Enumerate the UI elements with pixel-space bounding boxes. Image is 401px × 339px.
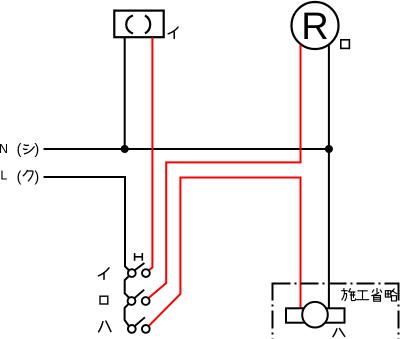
svg-text:N: N xyxy=(0,142,8,156)
label 施 (kanji) xyxy=(342,288,356,300)
label ハ (switch S3) xyxy=(99,321,111,332)
label N (シ) xyxy=(0,142,39,158)
label イ (switch S1) xyxy=(98,268,109,279)
svg-text:(: ( xyxy=(17,169,22,185)
label 工 (kanji) xyxy=(357,291,369,300)
wire: switch chain S1-S2 xyxy=(125,276,129,297)
wire: relay neutral (black) down to receptacle xyxy=(328,45,330,308)
wire: lamp switched leg (red) to switch イ xyxy=(149,37,153,270)
label イ (lamp) xyxy=(168,27,178,38)
switch S3 (ハ) xyxy=(128,317,150,333)
lamp fixture box U1 (イ) xyxy=(114,11,163,38)
junction node A (N line / lamp) xyxy=(121,145,129,153)
label ロ (relay) xyxy=(341,40,350,49)
svg-text:R: R xyxy=(301,6,328,48)
svg-text:(: ( xyxy=(17,142,22,158)
wire: neutral N line xyxy=(44,148,329,150)
lamp receptacle LR1 (ハ) xyxy=(286,302,345,328)
switch S1 (H / イ) xyxy=(128,263,150,277)
svg-text:): ) xyxy=(34,169,39,185)
wire: receptacle switched leg (red) from switch ハ xyxy=(149,178,301,327)
label L (ク) xyxy=(0,169,39,186)
label 省 (kanji) xyxy=(372,288,382,301)
boundary: 施工省略 dash-dot box xyxy=(273,283,399,339)
wire: relay switched leg (red) from switch ロ xyxy=(149,45,301,298)
wire: lamp neutral (black) xyxy=(124,37,126,149)
label ハ (receptacle) xyxy=(333,329,345,337)
label ロ (switch S2) xyxy=(100,296,108,304)
svg-text:L: L xyxy=(0,169,7,183)
wire: live L line with corner to switch chain xyxy=(44,177,129,270)
junction node B (N line / relay) xyxy=(325,145,333,153)
label 略 (kanji) xyxy=(385,289,396,301)
label H (switch S1) xyxy=(135,253,143,261)
switch S2 (ロ) xyxy=(128,290,150,305)
wire: switch chain S2-S3 xyxy=(125,304,129,326)
svg-text:): ) xyxy=(34,142,39,158)
remote control relay R xyxy=(292,2,339,49)
